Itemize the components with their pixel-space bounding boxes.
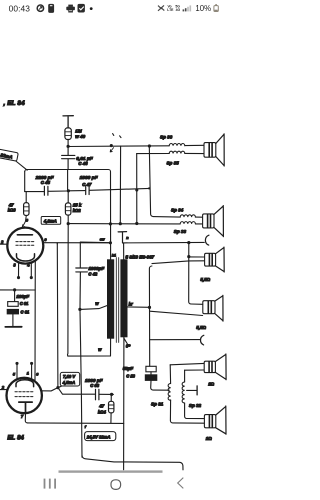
node junction dot below 1M	[67, 145, 70, 148]
value label 100uF C61	[16, 294, 29, 315]
tube V2 cathode cup inverted	[16, 380, 34, 387]
heater pin 1 tube V2 with dot	[31, 364, 33, 379]
svg-text:C 45: C 45	[41, 180, 51, 185]
resistor R 47k4 bottom stem	[110, 413, 112, 423]
inductor coil Sp32 vertical	[182, 382, 184, 403]
wire terminal T net y242.9	[123, 241, 205, 244]
pin 9 wire tube V1 anode to transformer	[43, 242, 110, 244]
resistor R 1M top terminal T-bar	[63, 116, 73, 128]
capacitor C47 plates	[86, 186, 89, 195]
pin 3 terminal dot	[17, 276, 20, 279]
scan edge grey line	[59, 470, 163, 472]
wire rail C from Sp35 corner down	[136, 154, 138, 224]
pin 2 wire tube V2 left	[0, 389, 7, 391]
wire 15k to node	[67, 215, 69, 223]
speaker LS1 cone	[216, 134, 224, 166]
tube V1 grid 1 dashed	[16, 241, 34, 243]
svg-text:10%: 10%	[195, 4, 211, 13]
speaker LS3 box	[205, 253, 216, 266]
wire Sp31 bottom to LS6	[170, 400, 204, 423]
wire secondary bottom ge tap	[123, 337, 125, 470]
transformer T1 core lines	[116, 258, 118, 343]
wire primary bottom stem	[110, 339, 112, 356]
node dot rail D speaker LS3 branch	[187, 255, 190, 258]
svg-text:4,3mA: 4,3mA	[43, 219, 57, 224]
NAV BAR	[44, 478, 184, 490]
speaker LS3 cone	[216, 247, 225, 272]
wire to bracket b2	[150, 339, 200, 341]
capacitor C61 100uF electrolytic	[7, 290, 19, 327]
value label 0,01uF C46	[76, 156, 94, 166]
wire rail E upper segment	[149, 146, 153, 217]
svg-text:5,5Ω: 5,5Ω	[200, 277, 210, 282]
wire stub to plate terminal	[187, 389, 197, 391]
value label 50uF C18	[123, 366, 136, 379]
node dot divider junction	[67, 189, 70, 192]
pin 3 wire tube V1	[18, 263, 20, 277]
wire resistor 1M to node	[67, 140, 69, 147]
wire 47k to tube grid with arrow	[22, 216, 26, 228]
wire tag to box corner	[16, 161, 27, 170]
wire rail T1-left (box to winding)	[110, 172, 112, 260]
svg-text:Sp 36: Sp 36	[160, 134, 173, 139]
inductor coil Sp36	[169, 143, 185, 145]
wire w tap to winding	[80, 306, 107, 310]
svg-text:, EL 84: , EL 84	[3, 100, 26, 107]
svg-text:47: 47	[98, 404, 104, 409]
resistor R 47k body	[24, 203, 29, 216]
wire net Sp36 top horizontal	[68, 145, 169, 148]
pin 2 wire tube V1 left	[0, 243, 7, 245]
svg-text:1000pF: 1000pF	[88, 266, 104, 271]
measure tag 32mA	[0, 149, 18, 161]
wire secondary top stem	[123, 243, 125, 260]
wire C42 top horizontal	[80, 242, 110, 268]
ge tap diagonal	[124, 338, 128, 344]
speaker LS6 cone	[216, 406, 226, 434]
node dot 15k bottom	[67, 222, 70, 225]
wire rail extension to node E	[111, 188, 150, 189]
wire rail K1 (tube V1 pin8 down)	[56, 243, 59, 387]
connector bracket b1	[205, 235, 209, 245]
wire rail B from Sp36 wire down	[119, 146, 121, 224]
wire grid net diagonal to box	[58, 386, 61, 387]
wire cathode horizontal y290	[0, 289, 35, 291]
value label 47 kOhm3	[8, 202, 17, 212]
wire speaker LS5 top	[170, 363, 204, 364]
svg-text:15 k: 15 k	[73, 203, 82, 208]
speaker LS5 box	[204, 361, 215, 372]
svg-text:br: br	[129, 302, 133, 307]
wire bottom rail left	[25, 191, 44, 193]
svg-text:C 61: C 61	[21, 310, 30, 315]
terminal T-bar symbol	[118, 232, 127, 243]
svg-text:1000 pF: 1000 pF	[85, 378, 103, 383]
node corner pin8 rail	[56, 243, 58, 244]
node dot 100uF junction	[13, 288, 16, 291]
wire speaker LS5 bottom	[185, 369, 204, 371]
wire rail C42 down	[80, 309, 82, 457]
transformer T1 primary winding bar	[107, 259, 114, 338]
wire speaker LS3 bottom from rail E2	[152, 261, 204, 264]
svg-text:Sp 32: Sp 32	[189, 403, 202, 408]
pin 4 terminal dot	[30, 276, 33, 279]
tube V1 anode plate	[17, 234, 32, 236]
capacitor C18 50uF electrolytic	[145, 366, 170, 390]
STATUS BAR	[9, 3, 219, 13]
ground symbol	[5, 326, 21, 328]
divider wire mid	[67, 170, 69, 191]
pin 7 wire tube V2 bottom	[25, 413, 27, 423]
wire Sp32 bottom to LS6 top	[185, 403, 205, 419]
svg-text:C 63: C 63	[90, 383, 100, 388]
speaker LS4 cone	[215, 295, 223, 321]
wire net Sp33 long horizontal	[68, 223, 180, 225]
plate terminal bar	[196, 386, 198, 395]
speaker LS5 cone	[215, 354, 226, 380]
pin 4 wire tube V1	[30, 263, 32, 277]
inductor coil Sp34	[180, 215, 195, 217]
svg-text:kΩ4: kΩ4	[98, 410, 107, 415]
capacitor C45 plates	[44, 186, 48, 195]
tube V2 EL84 envelope	[7, 378, 42, 413]
svg-text:1Ω: 1Ω	[208, 381, 214, 386]
value label 1M w40	[75, 128, 85, 138]
speaker LS2 cone	[214, 206, 223, 237]
svg-text:Sp 34: Sp 34	[171, 208, 184, 213]
wire cathode net y423	[28, 422, 124, 425]
node dot rail E2 br junction	[148, 306, 151, 309]
tube V2 grid 1 dashed	[15, 391, 33, 393]
svg-text:C 47: C 47	[82, 182, 92, 187]
speaker LS6 box	[204, 415, 215, 428]
svg-text:C 61: C 61	[20, 301, 29, 306]
transformer T1 secondary winding bar	[120, 259, 127, 337]
measure box 7,10V 4,5mA	[60, 372, 79, 386]
wire speaker LS3 top	[189, 256, 205, 258]
capacitor C46	[62, 148, 75, 169]
svg-text:C 18: C 18	[126, 373, 135, 378]
svg-text:00:43: 00:43	[9, 3, 31, 13]
svg-text:b1: b1	[112, 254, 116, 258]
wire heater rail to tube V2	[34, 262, 36, 382]
svg-text:50µF: 50µF	[123, 366, 134, 371]
svg-text:Sp 31: Sp 31	[151, 402, 164, 407]
value label 15k kOhm2	[73, 203, 82, 213]
value label 2200pF C45	[35, 175, 55, 185]
svg-text:w 40: w 40	[75, 134, 85, 139]
wire coil Sp34 to speaker	[195, 216, 202, 218]
wire grid net to C63	[58, 388, 95, 395]
svg-text:kΩ2: kΩ2	[73, 208, 82, 213]
measure box 24,5V 32mA	[85, 432, 116, 441]
node dot on rail x136.7	[135, 188, 138, 191]
svg-text:ge: ge	[125, 343, 131, 347]
wire rail 15k down	[67, 224, 70, 357]
value label 47 kOhm4	[98, 404, 107, 415]
svg-text:EL 84: EL 84	[7, 435, 24, 441]
speaker LS4 box	[203, 301, 215, 314]
svg-text:sw: sw	[100, 237, 105, 241]
wire net Sp34 horizontal	[153, 216, 180, 219]
box loop C45/C47 top edge	[25, 170, 111, 172]
resistor R 1M body	[65, 128, 71, 140]
svg-text:24,5V 32mA: 24,5V 32mA	[86, 434, 111, 439]
tube V1 EL84 envelope	[7, 228, 43, 264]
wire rail E2 (mid right)	[149, 266, 152, 366]
svg-text:C 46: C 46	[78, 161, 88, 166]
pin 9 grid wire tube V2 right	[42, 388, 58, 391]
capacitor C63 plates	[96, 389, 99, 399]
resistor R 15k wire upper	[67, 191, 69, 203]
svg-text:4,5mA: 4,5mA	[62, 380, 76, 385]
svg-text:100µF: 100µF	[16, 294, 29, 299]
node dot Sp33 at rail B	[119, 222, 122, 225]
node dot 47k4 top	[110, 393, 113, 396]
resistor R 47k4 stem	[110, 395, 112, 402]
inductor coil Sp35	[169, 151, 185, 153]
capacitor C42	[76, 268, 88, 309]
node dot Sp33 at rail C	[135, 222, 138, 225]
tiny tick mark a	[113, 134, 114, 136]
wire bottom rail mid	[49, 190, 86, 193]
wire Sp32 line top	[184, 370, 186, 382]
speaker LS1 (Sp36/35) box	[204, 143, 216, 158]
wire coil Sp36 to speaker	[185, 144, 204, 146]
wire coil Sp35 to speaker	[185, 152, 204, 154]
wire br tap	[128, 306, 150, 308]
svg-text:1M: 1M	[75, 128, 82, 133]
node dot Sp33 at rail T1	[109, 222, 112, 225]
inductor coil Sp33	[180, 222, 195, 224]
svg-text:Sp 33: Sp 33	[174, 229, 187, 234]
wire rail D down to speaker LS4	[189, 243, 203, 305]
node dot grid net V2	[56, 386, 59, 389]
node dot rail E top	[148, 144, 151, 147]
value label 1000pF C47	[80, 175, 99, 187]
speaker LS2 (Sp34/33) box	[203, 214, 214, 228]
measure box 4,3mA	[41, 217, 61, 225]
svg-text:7,10 V: 7,10 V	[63, 374, 76, 379]
node dot w-tap junction	[78, 308, 81, 311]
value label 1000pF C42	[88, 266, 104, 277]
resistor R 15k body	[65, 203, 71, 215]
tube V1 cathode cup	[17, 254, 35, 261]
wire coil Sp33 to speaker	[195, 223, 202, 225]
tube V1 grid 2 dashed	[16, 244, 34, 246]
svg-text:kΩ3: kΩ3	[8, 208, 17, 213]
heater pin 5 tube V2 with dot	[16, 364, 18, 380]
node dot T-net rail D junction	[187, 241, 190, 244]
wire bottom frame from rail C42	[82, 455, 183, 470]
svg-text:LTE: LTE	[167, 8, 174, 12]
node dot anode junction	[109, 241, 112, 244]
node dot junction at rail E	[148, 187, 150, 189]
svg-text:ü 3/10 ES-067: ü 3/10 ES-067	[125, 254, 154, 259]
svg-text:1000 pF: 1000 pF	[80, 175, 99, 181]
value label 1000pF C63	[85, 378, 103, 388]
node dot on Sp36 wire	[110, 144, 113, 147]
svg-text:C 42: C 42	[88, 272, 98, 277]
connector bracket b2	[200, 335, 203, 345]
resistor R 47k wire upper	[25, 192, 27, 203]
wire net Sp35 horizontal	[137, 153, 170, 155]
svg-text:5,5Ω: 5,5Ω	[196, 325, 206, 330]
wire speaker LS4 bottom from rail E2	[150, 311, 203, 315]
tube V2 grid 2 dashed	[15, 396, 33, 398]
svg-text:1Ω: 1Ω	[206, 436, 212, 441]
inductor coil Sp31 vertical	[168, 384, 170, 401]
svg-text:4G: 4G	[176, 8, 181, 12]
tiny tick mark b	[120, 136, 121, 138]
wire Sp31 line top	[169, 365, 171, 384]
arrow mark below Sp36 wire	[110, 148, 113, 152]
box loop left edge	[24, 172, 26, 192]
wire y356 horizontal	[68, 355, 111, 357]
tube V2 anode plate	[19, 402, 32, 413]
svg-text:1: 1	[27, 371, 29, 375]
wire bottom rail right	[90, 189, 111, 192]
svg-text:Sp 35: Sp 35	[167, 160, 180, 165]
resistor R 47k4 body	[109, 401, 114, 413]
wire C63 to node	[100, 393, 114, 395]
